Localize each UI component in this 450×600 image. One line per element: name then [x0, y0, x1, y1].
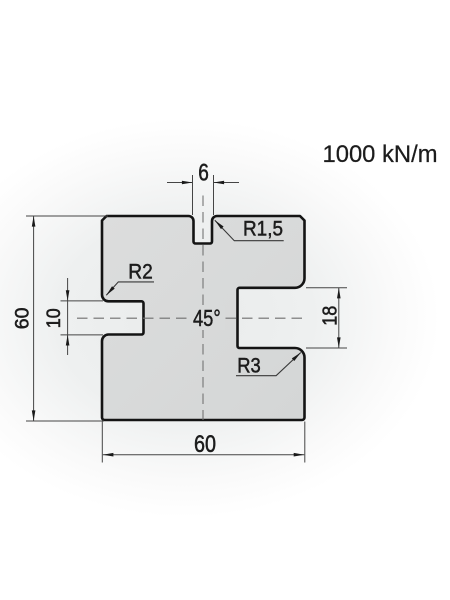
dim 6: dimension line tails — [167, 182, 239, 184]
leader R2 arrow — [105, 286, 115, 296]
dim 60 bottom: dimension line — [103, 454, 304, 456]
leader R3 line — [236, 353, 301, 376]
svg-text:60: 60 — [12, 307, 34, 329]
svg-text:10: 10 — [43, 308, 65, 328]
vertical centerline — [202, 196, 204, 421]
svg-text:6: 6 — [198, 159, 209, 186]
dim 18: extension lines — [306, 288, 347, 348]
dim 18: dimension line — [338, 288, 340, 348]
leader R1,5 arrow — [214, 219, 224, 229]
45 deg label background patch — [190, 306, 225, 330]
dim 60 bottom: left arrow — [103, 453, 114, 457]
dim 18: top arrow — [337, 288, 341, 299]
dim 6: left arrow — [182, 181, 193, 185]
dim 10: dimension line — [67, 278, 69, 355]
dim 60 left: extension lines — [26, 216, 108, 421]
dim 10: bottom arrow (outside pointing up) — [66, 335, 70, 346]
dim 60 left: top arrow — [32, 216, 36, 227]
leader R3 arrow — [292, 351, 302, 361]
dim 10: extension lines — [61, 301, 104, 335]
dim 60 bottom: right arrow — [294, 453, 305, 457]
svg-text:R2: R2 — [128, 259, 153, 283]
svg-text:R3: R3 — [237, 353, 261, 377]
svg-text:60: 60 — [194, 431, 216, 458]
svg-text:R1,5: R1,5 — [243, 216, 283, 240]
svg-text:45°: 45° — [193, 305, 221, 331]
leader R1,5 line — [215, 220, 284, 240]
leader R2 line — [106, 282, 154, 295]
dim 60 bottom: extension lines — [102, 422, 304, 463]
svg-text:1000 kN/m: 1000 kN/m — [323, 141, 438, 168]
dim 60 left: bottom arrow — [32, 410, 36, 421]
svg-text:18: 18 — [318, 306, 341, 326]
dim 6: right arrow — [214, 181, 225, 185]
dim 18: bottom arrow — [337, 337, 341, 348]
dim 60 left: dimension line — [33, 216, 35, 421]
dim 10: top arrow (outside pointing down) — [66, 290, 70, 301]
die body outline — [102, 216, 305, 420]
horizontal centerline — [77, 317, 307, 319]
dim 6: extension lines — [193, 175, 214, 215]
